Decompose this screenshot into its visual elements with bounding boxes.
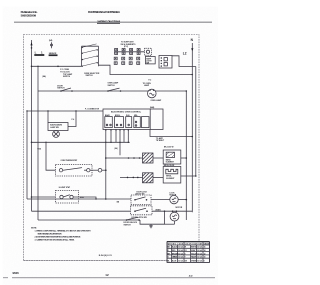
wire T1 feed — [46, 142, 56, 170]
svg-text:SWITCH: SWITCH — [63, 76, 71, 78]
svg-text:5995382909: 5995382909 — [21, 13, 37, 17]
svg-text:P-1 CONNECTOR: P-1 CONNECTOR — [85, 108, 100, 110]
svg-text:FGF355BGWA & FGF355BGBA: FGF355BGWA & FGF355BGBA — [88, 10, 120, 14]
bus segment right — [195, 67, 197, 177]
svg-text:(P-2): (P-2) — [124, 46, 128, 48]
terminal circle — [90, 169, 98, 171]
bake receptacle — [163, 147, 181, 164]
label L2 — [183, 51, 187, 55]
svg-text:E-54 (9) 2-31: E-54 (9) 2-31 — [99, 254, 113, 257]
wire L1 feed to selector — [32, 65, 82, 67]
svg-text:ELECTRONIC OVEN CONTROL: ELECTRONIC OVEN CONTROL — [111, 111, 142, 113]
svg-text:(84): (84) — [115, 147, 118, 150]
wire latch to motor — [152, 210, 192, 212]
bake row wire — [105, 157, 107, 159]
header publication number text — [21, 10, 38, 17]
node L1 bus — [31, 40, 33, 211]
wire unlock row — [38, 219, 140, 221]
label (84) — [115, 147, 118, 150]
connector row 2 — [114, 57, 155, 65]
bake element R1 — [143, 153, 154, 163]
N arrow — [191, 48, 193, 51]
label P-4 — [72, 118, 75, 121]
second thermostat dashed box — [56, 186, 79, 203]
broil element R2 — [143, 173, 154, 183]
chassis dashed frame — [24, 35, 200, 261]
wire selector output — [99, 65, 193, 74]
svg-text:P-4: P-4 — [72, 118, 75, 121]
svg-text:NOTE:: NOTE: — [31, 227, 37, 229]
svg-text:(94): (94) — [49, 39, 53, 42]
notes block — [31, 227, 91, 241]
wire color table — [167, 242, 210, 263]
wire lamp branch — [27, 110, 103, 112]
svg-text:(8A): (8A) — [42, 75, 46, 78]
oven selector switch S1 — [82, 44, 99, 67]
svg-text:BLUE: BLUE — [172, 260, 176, 262]
svg-text:12: 12 — [105, 273, 109, 277]
ground — [149, 224, 153, 228]
junction dot on L1 bus — [31, 47, 33, 49]
wire shield box return — [68, 111, 76, 127]
scan noise overlay — [0, 0, 1, 1]
footer rule — [3, 277, 8, 279]
selector switch labels — [60, 69, 100, 78]
wire TB to N bus — [172, 56, 196, 67]
svg-text:LAMP: LAMP — [144, 84, 150, 87]
junction dot — [192, 74, 194, 76]
lamp B2 — [53, 131, 60, 138]
svg-text:10: 10 — [204, 257, 206, 259]
N bus — [191, 43, 193, 212]
label under broil — [137, 191, 148, 193]
electronic oven control U1 — [103, 109, 163, 130]
label P-2 — [149, 80, 152, 82]
label TOD — [37, 149, 41, 151]
svg-text:12: 12 — [204, 253, 206, 255]
svg-text:16: 16 — [204, 247, 206, 249]
svg-text:L2: L2 — [183, 51, 187, 55]
svg-text:TIP BRKT: TIP BRKT — [156, 140, 165, 142]
terminal block TB — [159, 56, 172, 69]
label L1 — [34, 51, 44, 56]
label 83A — [80, 196, 84, 199]
connector row TO SURFACE UNITS — [114, 41, 152, 55]
header title WIRING DIAGRAM — [98, 19, 121, 23]
bottom wire — [32, 210, 131, 212]
junction dot — [186, 90, 188, 92]
svg-text:84: 84 — [117, 200, 120, 203]
svg-text:L1: L1 — [35, 51, 43, 55]
title underline — [97, 22, 120, 24]
footer page number — [13, 271, 109, 277]
svg-text:COLOR CODE KEY: COLOR CODE KEY — [185, 243, 203, 245]
bus segment mid right — [185, 91, 187, 220]
svg-text:SWITCH: SWITCH — [86, 75, 94, 77]
svg-text:3. CABINET MUST BE GROUNDED AT: 3. CABINET MUST BE GROUNDED AT ALL TIMES… — [35, 238, 75, 241]
svg-text:TO CLOCK: TO CLOCK — [60, 71, 70, 73]
svg-text:WHITE: WHITE — [191, 247, 196, 249]
svg-text:HI-LIMIT STAT: HI-LIMIT STAT — [59, 186, 71, 189]
svg-text:ELEMENT: ELEMENT — [166, 162, 175, 164]
footer tiny mark — [189, 275, 193, 278]
label P-1 connector — [85, 108, 100, 110]
svg-text:WIRING DIAGRAM: WIRING DIAGRAM — [98, 19, 121, 23]
lock motor M1 — [170, 192, 179, 204]
node N label — [191, 38, 194, 42]
svg-text:P-2: P-2 — [149, 80, 152, 82]
svg-text:SW: SW — [146, 63, 149, 65]
node N2 bus left — [26, 111, 28, 199]
svg-text:SWITCH: SWITCH — [57, 88, 65, 90]
switch S2 — [57, 85, 72, 91]
oven thermostat dashed box — [56, 159, 93, 176]
svg-text:OVEN THERMOSTAT: OVEN THERMOSTAT — [61, 159, 79, 162]
label 84 — [117, 200, 120, 203]
svg-text:SW & ELEMENTS: SW & ELEMENTS — [121, 44, 137, 46]
header model number text — [88, 10, 120, 14]
junction dot — [37, 66, 38, 67]
wire clock to broil row — [110, 130, 112, 143]
switch S3 — [107, 82, 121, 92]
surface light block — [145, 57, 155, 64]
diagram number — [99, 254, 113, 257]
svg-text:SWITCH: SWITCH — [108, 85, 116, 87]
svg-text:LAMP SW: LAMP SW — [50, 126, 59, 129]
wire hi-limit to latch — [73, 197, 96, 199]
svg-text:SWITCHES AND CIRCUITS SHOWN: SWITCHES AND CIRCUITS SHOWN — [38, 232, 63, 235]
svg-text:BL: BL — [168, 260, 170, 262]
header rule — [14, 21, 212, 23]
broil receptacle — [163, 165, 181, 183]
svg-text:MOTOR: MOTOR — [176, 207, 183, 209]
wire return loop — [164, 210, 166, 212]
wire to shield box — [47, 111, 49, 123]
label (84A) — [150, 106, 155, 109]
wire clock right return — [150, 130, 192, 137]
svg-text:BK-1000 W: BK-1000 W — [164, 147, 174, 149]
svg-text:OVEN LAMP: OVEN LAMP — [151, 99, 162, 102]
label (8A) — [42, 75, 46, 78]
clock drop stubs — [105, 130, 107, 200]
door latch switch dashed box — [131, 193, 151, 205]
svg-text:ELEMENT: ELEMENT — [166, 178, 175, 180]
svg-text:(84B): (84B) — [156, 208, 161, 211]
svg-text:A-52: A-52 — [189, 275, 193, 278]
wire clock to bake row — [119, 130, 121, 156]
label (84B) — [156, 208, 161, 211]
oven lamp B1 — [143, 83, 162, 102]
clock drop terminal dots — [105, 129, 129, 130]
svg-text:(84A): (84A) — [150, 106, 155, 109]
svg-text:VIOLET: VIOLET — [191, 253, 197, 255]
svg-text:1. WIRING COMPUTER ALL TERMINA: 1. WIRING COMPUTER ALL TERMINALS TO BE H… — [35, 229, 92, 232]
label motor — [176, 207, 183, 209]
L1 arrow — [30, 42, 32, 45]
svg-text:8: 8 — [204, 260, 205, 262]
svg-text:2. DOOR SWITCHES SHOWN WITH DO: 2. DOOR SWITCHES SHOWN WITH DOOR IN CLOS… — [35, 236, 81, 238]
svg-text:83A: 83A — [80, 196, 84, 199]
feed wire — [32, 196, 56, 198]
unlock switch — [124, 217, 140, 226]
door latch switch 2 dashed box — [131, 206, 153, 219]
wire common feed — [31, 142, 33, 144]
svg-text:9606: 9606 — [13, 271, 20, 275]
svg-text:YELLOW: YELLOW — [191, 257, 196, 259]
bottom dashed line — [24, 260, 168, 262]
svg-text:TOD: TOD — [37, 149, 41, 151]
wire door switch circuit — [37, 66, 39, 220]
svg-text:N: N — [191, 38, 194, 42]
thermal fuse (94) — [49, 39, 58, 56]
broil row — [120, 176, 143, 178]
svg-text:WIRING CODE: WIRING CODE — [168, 243, 184, 245]
svg-text:SWITCH: SWITCH — [124, 224, 132, 226]
lock motor M2 — [170, 210, 179, 224]
shielded lamp box — [48, 123, 68, 131]
junction dot — [57, 66, 59, 68]
